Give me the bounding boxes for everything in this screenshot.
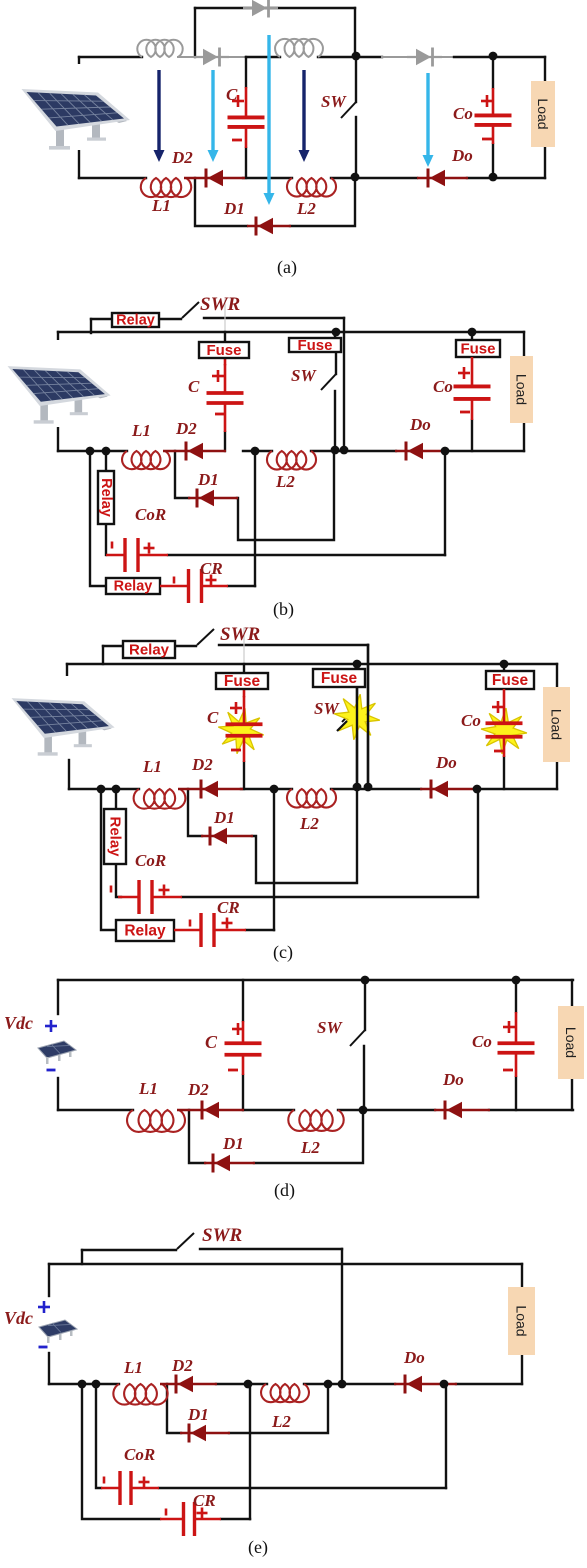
plus of Co (d): [503, 1021, 515, 1033]
svg-text:Do: Do: [435, 753, 457, 772]
wire: CR to main node (b): [254, 451, 256, 586]
wire: relay row drop: [90, 319, 92, 333]
inductor L2 (b): [267, 451, 316, 470]
junction main/SW (d): [359, 1106, 368, 1115]
wire: SW lower contact (c): [356, 723, 358, 789]
wire: CR row right (b): [228, 585, 255, 587]
wire: SWR to right corner: [204, 317, 344, 319]
svg-text:Relay: Relay: [107, 816, 124, 857]
svg-text:Vdc: Vdc: [4, 1308, 33, 1328]
svg-text:SW: SW: [317, 1018, 343, 1037]
wire: D1 branch left (e): [167, 1384, 181, 1433]
wire: top rail (e): [49, 1263, 522, 1265]
svg-text:D1: D1: [197, 470, 219, 489]
svg-text:Co: Co: [453, 104, 473, 123]
wire: top bypass left leg: [194, 8, 196, 57]
ghost diode (row): [194, 48, 229, 67]
plus of C (d): [232, 1023, 244, 1035]
svg-text:Vdc: Vdc: [4, 1013, 33, 1033]
DC source icon (d): [38, 1041, 76, 1064]
ghost inductor (input row): [137, 40, 182, 57]
wire: left rail lower (e): [48, 1353, 50, 1384]
wire: load top lead: [544, 57, 546, 81]
wire: SWR row left (e): [82, 1249, 176, 1251]
svg-text:Do: Do: [409, 415, 431, 434]
svg-text:C: C: [207, 708, 219, 727]
wire: D1 branch right (e): [229, 1384, 328, 1433]
svg-text:D1: D1: [213, 808, 235, 827]
plus of Vdc (e): [38, 1301, 50, 1313]
svg-text:Load: Load: [549, 709, 565, 740]
svg-text:Co: Co: [461, 711, 481, 730]
wire: faint fuse lead: [224, 300, 226, 332]
junction top/SW fuse (c): [353, 660, 362, 669]
wire: left rail upper stub: [78, 57, 80, 67]
svg-text:CR: CR: [217, 898, 240, 917]
junction main/SW (c): [353, 783, 362, 792]
diode D1 (b): [188, 489, 238, 508]
DC source icon (e): [39, 1320, 77, 1343]
wire: Co fuse lead (b): [471, 332, 473, 340]
current arrow (cyan, C path): [264, 35, 275, 205]
wire: SW fuse lead (b): [334, 332, 336, 338]
junction main/CR-up (e): [244, 1380, 253, 1389]
solar panel: [12, 64, 152, 150]
junction: SW top node: [352, 52, 361, 61]
ghost inductor 2: [275, 39, 323, 57]
wire: CR row right (c): [246, 929, 274, 931]
svg-text:Do: Do: [451, 146, 473, 165]
plus of CR (e): [197, 1508, 208, 1519]
wire: left rail upper (e): [48, 1264, 50, 1296]
relay box (bottom, b): [106, 578, 160, 595]
junction main/SWR (c): [364, 783, 373, 792]
wire: SWR to corner (c): [219, 644, 368, 646]
label L1 (b): [131, 421, 151, 440]
load resistor (b): [510, 356, 533, 423]
junction main/CR (b): [251, 447, 260, 456]
minus of Vdc (d): [47, 1069, 56, 1072]
wire: Co fuse lead (c): [503, 664, 505, 671]
minus of C (c): [231, 749, 241, 752]
caption (a): [277, 257, 297, 278]
svg-text:L1: L1: [123, 1358, 143, 1377]
wire: main between C branch and L2: [243, 177, 292, 179]
wire: ghost row segment: [178, 56, 203, 58]
wire: faint fuse lead (c): [243, 628, 245, 662]
junction: Co bottom node: [489, 173, 498, 182]
svg-text:D2: D2: [171, 148, 193, 167]
wire: SW lower contact: [355, 117, 357, 177]
minus tick CoR (c): [110, 886, 113, 893]
plus of CoR (b): [144, 543, 155, 554]
label Do (c): [435, 753, 457, 772]
load resistor (c): [543, 687, 570, 762]
wire: SW lower contact (d): [363, 1046, 365, 1110]
wire: Co branch upper: [492, 56, 494, 88]
svg-text:Co: Co: [433, 377, 453, 396]
wire: C branch lower (c): [243, 762, 245, 789]
capacitor CoR (c): [118, 880, 182, 914]
svg-text:CR: CR: [193, 1491, 216, 1510]
wire: CR left leg (e): [82, 1384, 160, 1519]
ghost diode (output row): [407, 48, 442, 67]
wire: SW contact overlay (c): [356, 689, 358, 787]
wire: main left (e): [49, 1383, 119, 1385]
wire: load bottom lead (b): [523, 423, 525, 451]
svg-text:Do: Do: [403, 1348, 425, 1367]
current arrow (navy, input): [154, 70, 165, 162]
svg-text:L2: L2: [296, 199, 316, 218]
wire: Co branch lower (d): [515, 1077, 517, 1110]
inductor L2 (d): [288, 1110, 343, 1131]
relay box (vertical, c): [104, 809, 126, 864]
label Co (d): [472, 1032, 492, 1051]
label L2 (b): [275, 472, 295, 491]
minus tick CoR (b): [111, 542, 114, 549]
plus of CoR (e): [139, 1477, 150, 1488]
label D1 (a): [223, 199, 245, 218]
wire: left rail lower (d): [57, 1078, 59, 1110]
minus of C (d): [228, 1069, 238, 1072]
label D1 (d): [222, 1134, 244, 1153]
wire: main Do-load (b): [445, 450, 524, 452]
solar panel: [0, 340, 127, 427]
fuse box (SW, c): [313, 669, 365, 687]
load resistor (a): [531, 81, 555, 147]
minus tick CR (b): [173, 577, 176, 584]
diode D2: [184, 169, 245, 188]
junction top/SW fuse (b): [332, 328, 341, 337]
svg-text:SW: SW: [321, 92, 347, 111]
fault star at SW: [334, 694, 380, 740]
wire: top rail (b): [58, 331, 524, 333]
wire: top rail (c): [67, 663, 557, 665]
junction: SW bottom node: [351, 173, 360, 182]
caption (c): [273, 942, 293, 963]
svg-text:D2: D2: [171, 1356, 193, 1375]
wire: main left (d): [58, 1109, 133, 1111]
label D1 (c): [213, 808, 235, 827]
wire: D1 branch right (d): [254, 1110, 363, 1163]
wire: left rail lower: [78, 144, 80, 178]
label L1 (d): [138, 1079, 158, 1098]
junction top/SW (d): [361, 976, 370, 985]
junction top/Co (b): [468, 328, 477, 337]
wire: top bypass right leg: [354, 8, 356, 56]
wire: C branch lower: [245, 148, 247, 178]
wire: SW lower contact (b): [334, 391, 336, 450]
svg-text:D1: D1: [187, 1405, 209, 1424]
label Co (a): [453, 104, 473, 123]
svg-text:L1: L1: [151, 196, 171, 215]
svg-text:Load: Load: [535, 98, 551, 129]
wire: row to ghost inductor 2: [246, 56, 280, 58]
wire: top rail (d): [58, 979, 573, 981]
minus tick CR (c): [189, 920, 192, 927]
wire: input row to ghost inductor: [79, 56, 142, 58]
wire: relay1 to CoR (c): [116, 864, 121, 897]
svg-text:L2: L2: [271, 1412, 291, 1431]
wire: Co branch lower (c): [503, 757, 505, 789]
junction main/SWR (e): [338, 1380, 347, 1389]
svg-text:C: C: [205, 1032, 218, 1052]
wire: fuse to C red lead: [224, 358, 227, 364]
junction top/Co (c): [500, 660, 509, 669]
wire: Co branch lower: [492, 144, 494, 177]
current arrow (cyan, Do path): [423, 73, 434, 167]
svg-text:SWR: SWR: [202, 1225, 242, 1246]
svg-text:L2: L2: [275, 472, 295, 491]
svg-text:CoR: CoR: [135, 505, 166, 524]
svg-text:Relay: Relay: [124, 923, 166, 940]
diode D2 (c): [178, 780, 243, 799]
label CR (e): [193, 1491, 216, 1510]
junction main/CR (c): [270, 785, 279, 794]
wire: SW upper contact (b): [335, 352, 337, 374]
diode Do (d): [434, 1101, 490, 1120]
junction Do output (c): [473, 785, 482, 794]
label Do (d): [442, 1070, 464, 1089]
wire: main bottom left: [79, 177, 146, 179]
label CR (c): [217, 898, 240, 917]
minus of Co (b): [460, 411, 470, 414]
wire: D1 branch left (d): [189, 1110, 205, 1163]
diode D2 (d): [177, 1101, 244, 1120]
plus of C (a): [232, 95, 244, 107]
wire: left rail upper (b): [57, 332, 59, 343]
label SW (a): [321, 92, 347, 111]
svg-text:Relay: Relay: [98, 478, 114, 517]
inductor L2 (e): [261, 1384, 309, 1402]
plus of Co (b): [458, 367, 470, 379]
svg-text:(d): (d): [274, 1180, 295, 1201]
load resistor (e): [508, 1287, 535, 1355]
svg-text:L1: L1: [131, 421, 151, 440]
wire: main Do to load: [467, 177, 545, 179]
wire: CR to main node (c): [273, 789, 275, 930]
svg-text:Load: Load: [514, 1305, 530, 1336]
capacitor C (c): [226, 696, 263, 762]
switch SW (c): [342, 706, 357, 722]
label CoR (b): [135, 505, 166, 524]
label Do (a): [451, 146, 473, 165]
label C (d): [205, 1032, 218, 1052]
wire: main left (b): [58, 450, 127, 452]
wire: main L2-Do (e): [304, 1383, 395, 1385]
svg-text:Fuse: Fuse: [492, 672, 529, 689]
label SWR (c): [220, 624, 260, 645]
junction main/relay2 (b): [86, 447, 95, 456]
minus of C (b): [215, 413, 225, 416]
label D2 (b): [175, 419, 197, 438]
capacitor Co: [475, 88, 512, 144]
wire: SW upper contact: [355, 56, 357, 102]
wire: main L2-Do (b): [311, 450, 396, 452]
wire: C branch upper (d): [242, 980, 244, 1021]
svg-text:(b): (b): [273, 599, 294, 620]
minus tick CR (e): [165, 1509, 168, 1516]
svg-text:CoR: CoR: [124, 1445, 155, 1464]
wire: D1 branch left (b): [175, 451, 189, 498]
relay box (top, c): [123, 641, 175, 659]
plus of CoR (c): [159, 885, 170, 896]
diode Do (e): [394, 1375, 457, 1394]
switch SW (b): [321, 374, 336, 390]
svg-text:Fuse: Fuse: [206, 342, 241, 359]
wire: SWR branch down (e): [341, 1249, 343, 1384]
wire: D1 branch left: [195, 178, 247, 226]
wire: SWR branch down: [343, 318, 345, 450]
fault star at C: [218, 708, 263, 753]
label CoR (e): [124, 1445, 155, 1464]
label D2 (a): [171, 148, 193, 167]
inductor L2 (c): [287, 789, 336, 808]
wire: load bottom lead: [544, 147, 546, 178]
svg-text:SW: SW: [291, 366, 317, 385]
label SWR (e): [202, 1225, 242, 1246]
minus of Co (a): [482, 138, 492, 141]
caption (e): [248, 1537, 268, 1558]
svg-text:D1: D1: [223, 199, 245, 218]
wire: main C-L2 (d): [243, 1109, 294, 1111]
label CR (b): [200, 559, 223, 578]
wire: main D2-L2 (e): [216, 1383, 267, 1385]
wire: relay row left: [91, 318, 112, 320]
plus of Co (a): [481, 95, 493, 107]
junction top/Co (d): [512, 976, 521, 985]
wire: D1 branch loop (c): [252, 789, 357, 883]
wire: D1 branch loop (b): [237, 451, 334, 540]
minus of Vdc (e): [39, 1346, 48, 1349]
svg-text:D2: D2: [175, 419, 197, 438]
capacitor Co (c): [486, 689, 523, 757]
label D2 (d): [187, 1080, 209, 1099]
label C (c): [207, 708, 219, 727]
wire: left rail lower (b): [57, 428, 59, 451]
wire: D1 branch right: [290, 177, 355, 226]
label D1 (b): [197, 470, 219, 489]
capacitor CR (e): [160, 1502, 221, 1536]
minus of Co (c): [494, 750, 504, 753]
plus of C (c): [230, 702, 242, 714]
diode D2 (b): [163, 442, 226, 461]
diode Do (b): [395, 442, 446, 461]
wire: CoR to Do node (b): [444, 451, 446, 555]
inductor L1 (b): [122, 451, 170, 469]
label L2 (e): [271, 1412, 291, 1431]
label C (b): [188, 377, 200, 396]
capacitor C: [228, 87, 265, 148]
label SW (d): [317, 1018, 343, 1037]
svg-text:(e): (e): [248, 1537, 268, 1558]
label D2 (c): [191, 755, 213, 774]
label D2 (e): [171, 1356, 193, 1375]
wire: SWR branch down (c): [367, 645, 369, 789]
minus tick CoR (e): [103, 1477, 106, 1484]
wire: load top lead (d): [571, 980, 573, 1006]
svg-text:Fuse: Fuse: [321, 670, 358, 687]
label Co (b): [433, 377, 453, 396]
svg-text:Relay: Relay: [116, 313, 155, 329]
wire: C branch upper: [245, 57, 247, 87]
plus of Co (c): [492, 701, 504, 713]
svg-text:D2: D2: [191, 755, 213, 774]
ghost diode (top bypass): [243, 0, 278, 18]
label L2 (c): [299, 814, 319, 833]
label CoR (c): [135, 851, 166, 870]
wire: SWR branch overlay (c): [367, 645, 369, 787]
svg-text:Co: Co: [472, 1032, 492, 1051]
label L1 (c): [142, 757, 162, 776]
svg-text:D2: D2: [187, 1080, 209, 1099]
fuse box (SW, b): [289, 337, 341, 354]
wire: left rail upper (c): [66, 664, 68, 676]
wire: Co branch lower (b): [471, 420, 473, 451]
current arrow (navy, L2): [299, 70, 310, 162]
diode D2 (e): [160, 1375, 217, 1394]
junction main/SW (b): [331, 446, 340, 455]
wire: left rail upper (d): [57, 980, 59, 1014]
svg-text:Relay: Relay: [114, 579, 153, 595]
capacitor C (d): [225, 1021, 262, 1075]
minus of C (a): [232, 139, 242, 142]
wire: CoR row (b): [168, 554, 445, 556]
wire: load top lead (e): [521, 1264, 523, 1287]
label C (a): [226, 85, 238, 104]
label SWR (b): [200, 294, 240, 315]
diode Do (c): [420, 780, 478, 799]
fuse box (C, b): [199, 342, 249, 359]
inductor L2: [287, 178, 336, 197]
wire: load bottom lead (e): [521, 1355, 523, 1384]
wire: relay2 left leg (c): [101, 789, 116, 930]
svg-text:L2: L2: [300, 1138, 320, 1157]
plus of CR (c): [222, 918, 233, 929]
capacitor CR (b): [160, 569, 228, 603]
wire: CR row right (e): [221, 1518, 250, 1520]
wire: CoR row (e): [159, 1487, 446, 1489]
diode D1 (c): [201, 827, 253, 846]
junction main/relay1 (c): [112, 785, 121, 794]
plus of Vdc (d): [45, 1020, 57, 1032]
label Vdc (e): [4, 1308, 33, 1328]
svg-text:(c): (c): [273, 942, 293, 963]
wire: relay1 top leg (c): [115, 789, 117, 809]
wire: relay2 left leg (b): [90, 451, 106, 586]
wire: SW upper contact (d): [364, 980, 366, 1030]
label Co (c): [461, 711, 481, 730]
capacitor CoR (b): [106, 538, 168, 572]
junction main/D1 (e): [324, 1380, 333, 1389]
wire: CoR row (c): [182, 896, 478, 898]
diode D1: [247, 217, 291, 236]
label Vdc (d): [4, 1013, 33, 1033]
minus of Co (d): [503, 1069, 513, 1072]
diode D1 (e): [180, 1424, 230, 1443]
svg-text:C: C: [188, 377, 200, 396]
capacitor CR (c): [174, 913, 246, 947]
svg-text:Fuse: Fuse: [224, 673, 261, 690]
wire: C branch lower (d): [242, 1075, 244, 1110]
inductor L1: [141, 178, 191, 197]
svg-text:Load: Load: [563, 1027, 579, 1058]
relay box (top, b): [112, 313, 159, 329]
wire: Co branch upper (d): [515, 980, 517, 1012]
wire: load top lead (b): [523, 332, 525, 356]
current arrow (cyan, D2 path): [208, 70, 219, 162]
capacitor C (b): [207, 364, 244, 432]
